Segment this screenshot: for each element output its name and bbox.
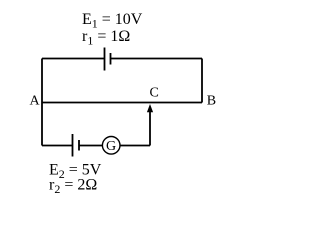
svg-text:B: B xyxy=(207,93,216,108)
svg-text:r1 = 1Ω: r1 = 1Ω xyxy=(82,28,130,48)
svg-text:r2 = 2Ω: r2 = 2Ω xyxy=(49,177,97,197)
svg-text:C: C xyxy=(150,86,159,101)
svg-text:A: A xyxy=(30,94,41,109)
svg-text:G: G xyxy=(106,139,116,154)
